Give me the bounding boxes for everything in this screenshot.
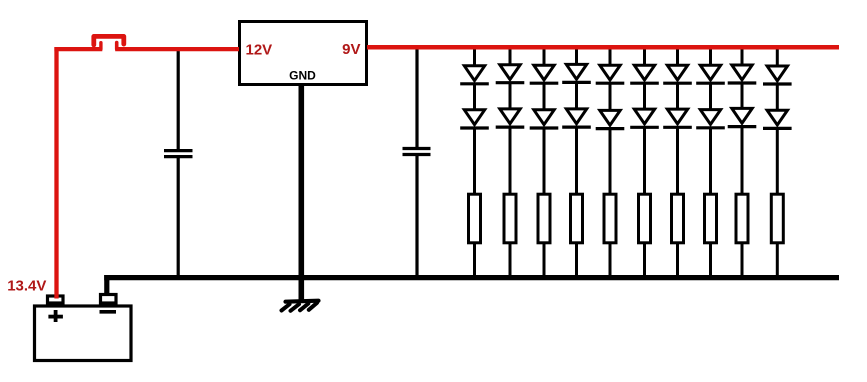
LED D18 (string 9, lower) bbox=[728, 108, 757, 126]
wire: resistor R4 to ground bus (string 4) bbox=[575, 243, 578, 278]
wire: resistor R6 to ground bus (string 6) bbox=[643, 243, 646, 278]
wire: U1 GND pin to ground symbol (vertical trunk) bbox=[298, 84, 304, 300]
wire: 9V rail to LED D17 anode (string 9) bbox=[741, 47, 744, 66]
resistor R7 (string 7) bbox=[672, 194, 684, 243]
resistor R1 (string 1) bbox=[469, 194, 481, 243]
LED D3 (string 2, upper) bbox=[496, 65, 525, 83]
voltage regulator U1 body bbox=[240, 22, 367, 85]
capacitor C2 bbox=[403, 149, 431, 155]
wire: +12V rail to capacitor C1 top lead bbox=[177, 49, 180, 151]
wire: ground return bus (horizontal) bbox=[104, 275, 839, 280]
wire: LED D14 cathode to resistor R7 (string 7) bbox=[676, 126, 679, 195]
wire: LED D19 cathode to LED D20 anode (string 10) bbox=[776, 83, 779, 110]
battery BT1 body bbox=[35, 306, 132, 361]
LED D4 (string 2, lower) bbox=[496, 109, 525, 127]
wire: LED D15 cathode to LED D16 anode (string 8) bbox=[709, 82, 712, 110]
LED D7 (string 4, upper) bbox=[562, 64, 591, 82]
resistor R3 (string 3) bbox=[538, 194, 550, 243]
wire: LED D11 cathode to LED D12 anode (string 6) bbox=[643, 82, 646, 109]
wire: battery positive terminal to fuse (red, vertical) bbox=[54, 47, 58, 299]
wire: LED D10 cathode to resistor R5 (string 5) bbox=[609, 128, 612, 196]
wire: resistor R8 to ground bus (string 8) bbox=[709, 243, 712, 278]
LED D9 (string 5, upper) bbox=[596, 65, 625, 83]
wire: 9V rail to LED D3 anode (string 2) bbox=[509, 47, 512, 65]
label: battery voltage 13.4V bbox=[7, 278, 46, 295]
battery BT1 plus marking bbox=[48, 310, 63, 322]
wire: fuse to regulator U1 12V input (red) bbox=[115, 47, 239, 51]
resistor R4 (string 4) bbox=[571, 194, 583, 243]
svg-text:9V: 9V bbox=[342, 41, 360, 58]
wire: resistor R10 to ground bus (string 10) bbox=[776, 243, 779, 278]
LED D15 (string 8, upper) bbox=[696, 65, 725, 83]
wire: 9V rail to capacitor C2 top lead bbox=[415, 47, 418, 149]
LED D20 (string 10, lower) bbox=[763, 110, 792, 128]
svg-text:GND: GND bbox=[289, 68, 316, 82]
wire: corner to fuse left terminal (red, horizontal) bbox=[54, 47, 102, 51]
capacitor C1 bbox=[164, 151, 193, 157]
wire: LED D9 cathode to LED D10 anode (string 5) bbox=[609, 82, 612, 110]
LED D17 (string 9, upper) bbox=[728, 65, 757, 83]
wire: LED D1 cathode to LED D2 anode (string 1) bbox=[473, 83, 476, 110]
wire: ground bus to battery negative terminal bbox=[104, 275, 109, 295]
wire: 9V rail to LED D13 anode (string 7) bbox=[676, 47, 679, 66]
wire: LED D12 cathode to resistor R6 (string 6) bbox=[643, 126, 646, 195]
battery BT1 positive terminal bbox=[48, 296, 64, 303]
wire: LED D18 cathode to resistor R9 (string 9) bbox=[741, 126, 744, 196]
LED D12 (string 6, lower) bbox=[630, 109, 659, 127]
wire: 9V rail to LED D15 anode (string 8) bbox=[709, 47, 712, 66]
wire: LED D6 cathode to resistor R3 (string 3) bbox=[543, 127, 546, 195]
LED D1 (string 1, upper) bbox=[460, 66, 489, 84]
wire: LED D20 cathode to resistor R10 (string 10) bbox=[776, 127, 779, 195]
wire: LED D5 cathode to LED D6 anode (string 3) bbox=[543, 82, 546, 110]
LED D11 (string 6, upper) bbox=[630, 65, 659, 83]
wire: LED D7 cathode to LED D8 anode (string 4) bbox=[575, 81, 578, 109]
battery BT1 minus marking bbox=[100, 310, 117, 314]
wire: LED D3 cathode to LED D4 anode (string 2) bbox=[509, 82, 512, 109]
wire: resistor R7 to ground bus (string 7) bbox=[676, 243, 679, 278]
wire: LED D2 cathode to resistor R1 (string 1) bbox=[473, 127, 476, 195]
LED D14 (string 7, lower) bbox=[663, 109, 692, 127]
LED D2 (string 1, lower) bbox=[460, 110, 489, 128]
wire: resistor R2 to ground bus (string 2) bbox=[509, 243, 512, 278]
wire: LED D17 cathode to LED D18 anode (string 9) bbox=[741, 82, 744, 109]
resistor R5 (string 5) bbox=[604, 194, 616, 243]
wire: 9V rail to LED D1 anode (string 1) bbox=[473, 47, 476, 66]
resistor R9 (string 9) bbox=[736, 194, 748, 243]
LED D16 (string 8, lower) bbox=[696, 110, 725, 128]
U1 pin label GND bbox=[289, 68, 316, 82]
LED D6 (string 3, lower) bbox=[530, 110, 559, 128]
resistor R2 (string 2) bbox=[504, 194, 516, 243]
LED D5 (string 3, upper) bbox=[530, 65, 559, 83]
U1 pin label 9V (output) bbox=[342, 41, 360, 58]
wire: resistor R1 to ground bus (string 1) bbox=[473, 243, 476, 278]
LED D10 (string 5, lower) bbox=[596, 110, 625, 128]
wire: resistor R9 to ground bus (string 9) bbox=[741, 243, 744, 278]
U1 pin label 12V (input) bbox=[246, 41, 273, 58]
wire: capacitor C2 bottom lead to ground bus bbox=[415, 155, 418, 279]
wire: LED D16 cathode to resistor R8 (string 8) bbox=[709, 127, 712, 195]
battery BT1 negative terminal bbox=[101, 295, 117, 304]
wire: capacitor C1 bottom lead to ground bus bbox=[177, 157, 180, 278]
wire: LED D4 cathode to resistor R2 (string 2) bbox=[509, 126, 512, 195]
svg-text:12V: 12V bbox=[246, 41, 273, 58]
resistor R6 (string 6) bbox=[639, 194, 651, 243]
wire: LED D8 cathode to resistor R4 (string 4) bbox=[575, 126, 578, 195]
wire: 9V rail to LED D5 anode (string 3) bbox=[543, 47, 546, 66]
resistor R8 (string 8) bbox=[705, 194, 717, 243]
ground symbol bbox=[282, 301, 319, 311]
LED D8 (string 4, lower) bbox=[562, 109, 591, 127]
wire: resistor R3 to ground bus (string 3) bbox=[543, 243, 546, 278]
wire: 9V rail to LED D7 anode (string 4) bbox=[575, 47, 578, 65]
LED D13 (string 7, upper) bbox=[663, 65, 692, 83]
wire: 9V rail to LED D19 anode (string 10) bbox=[776, 47, 779, 67]
LED D19 (string 10, upper) bbox=[763, 66, 792, 84]
wire: LED D13 cathode to LED D14 anode (string 7) bbox=[676, 82, 679, 109]
wire: 9V rail to LED D9 anode (string 5) bbox=[609, 47, 612, 66]
wire: U1 9V output rail (red, horizontal) bbox=[367, 45, 839, 50]
wire: 9V rail to LED D11 anode (string 6) bbox=[643, 47, 646, 66]
wire: resistor R5 to ground bus (string 5) bbox=[609, 243, 612, 278]
resistor R10 (string 10) bbox=[771, 194, 783, 243]
fuse F1 bbox=[94, 36, 124, 49]
svg-text:13.4V: 13.4V bbox=[7, 278, 46, 295]
